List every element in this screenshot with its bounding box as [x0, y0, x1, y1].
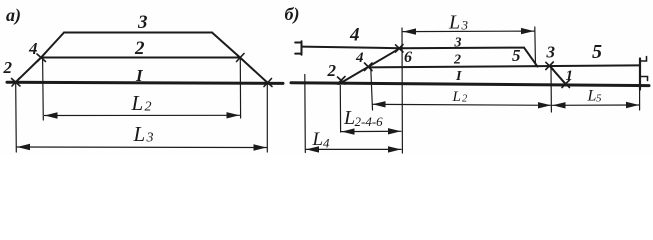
- svg-text:б): б): [285, 4, 300, 25]
- diagonal point 5 (scheme b): [524, 48, 538, 67]
- extension line from point 4 (scheme b): [371, 69, 373, 111]
- dimension line L2-4-6 (scheme b): [342, 130, 402, 132]
- svg-text:2: 2: [327, 61, 337, 80]
- svg-text:L: L: [452, 89, 461, 105]
- svg-text:4: 4: [349, 25, 360, 46]
- track 2 (scheme a): [41, 57, 240, 59]
- svg-text:4: 4: [28, 39, 38, 58]
- point mark right bottom (scheme a): [264, 79, 273, 87]
- svg-text:L: L: [131, 91, 144, 115]
- track 3 (scheme b): [400, 47, 524, 50]
- extension line from point 2 (scheme a): [15, 84, 18, 152]
- svg-text:3: 3: [146, 131, 154, 146]
- turnout diagonal 2-4-6 (scheme b): [339, 48, 400, 84]
- point mark 3 (scheme b): [546, 62, 554, 70]
- track I main line (scheme b): [291, 83, 649, 86]
- track I main line (scheme a): [7, 82, 283, 83]
- svg-text:4: 4: [323, 136, 330, 151]
- point mark right top (scheme a): [236, 54, 245, 62]
- extension line L5 right (scheme b): [639, 90, 641, 111]
- extension line from point 3 (scheme b): [550, 68, 552, 112]
- svg-text:а): а): [6, 5, 21, 26]
- svg-text:3: 3: [137, 12, 148, 33]
- tick on main line left (scheme b): [304, 75, 307, 153]
- diagonal point 3 to 1 (scheme b): [550, 66, 566, 84]
- svg-text:2: 2: [462, 94, 468, 105]
- extension line from point 4 (scheme a): [42, 60, 45, 121]
- svg-text:2-4-6: 2-4-6: [355, 114, 384, 129]
- svg-text:2: 2: [134, 38, 145, 59]
- svg-text:2: 2: [3, 58, 13, 77]
- svg-text:L: L: [448, 12, 460, 34]
- extension line right main junction (scheme a): [266, 85, 268, 152]
- track 4 (scheme b): [302, 47, 400, 49]
- dimension line L4 (scheme b): [306, 148, 401, 150]
- point mark 1 (scheme b): [562, 80, 570, 88]
- svg-text:2: 2: [145, 100, 152, 115]
- svg-text:L: L: [133, 122, 146, 146]
- dimension line L3 (scheme b): [403, 30, 534, 33]
- svg-text:5: 5: [596, 93, 602, 105]
- svg-text:5: 5: [512, 46, 521, 65]
- dimension line L5 (scheme b): [553, 104, 640, 106]
- buffer stop track 5 right (scheme b): [639, 59, 641, 90]
- track 3 (scheme a): [64, 31, 212, 33]
- extension line from point 6 (scheme b): [401, 28, 403, 153]
- track 2 + track 5 line (scheme b): [369, 65, 640, 67]
- svg-text:2: 2: [453, 53, 461, 68]
- point mark 4 (scheme b): [365, 63, 373, 71]
- dimension line L3 (scheme a): [17, 146, 267, 149]
- point mark 4 (scheme a): [37, 54, 46, 62]
- svg-text:5: 5: [592, 41, 602, 63]
- svg-text:L: L: [343, 107, 355, 129]
- svg-text:4: 4: [355, 50, 364, 66]
- dimension line L2 (scheme a): [45, 114, 240, 116]
- turnout wire 2-4 left diagonal (scheme a): [16, 33, 65, 83]
- svg-text:6: 6: [404, 49, 412, 66]
- extension line from point 2 (scheme b): [339, 86, 341, 133]
- right closure diagonal (scheme a): [212, 33, 268, 83]
- point mark 2 (scheme b): [338, 77, 346, 85]
- svg-text:L: L: [587, 88, 597, 105]
- svg-text:3: 3: [454, 36, 462, 51]
- extension line right track2 junction (scheme a): [239, 60, 241, 119]
- svg-text:3: 3: [461, 18, 469, 33]
- extension line point 5 / L3 right tick (scheme b): [534, 27, 537, 67]
- buffer stop track 4 (scheme b): [295, 41, 301, 55]
- svg-text:L: L: [312, 129, 324, 150]
- svg-text:1: 1: [566, 68, 574, 84]
- point mark 2 (scheme a): [12, 78, 21, 86]
- svg-text:I: I: [455, 69, 462, 84]
- dimension line L2 (scheme b): [373, 104, 552, 105]
- svg-text:3: 3: [546, 43, 556, 62]
- point mark 6 (scheme b): [396, 45, 404, 53]
